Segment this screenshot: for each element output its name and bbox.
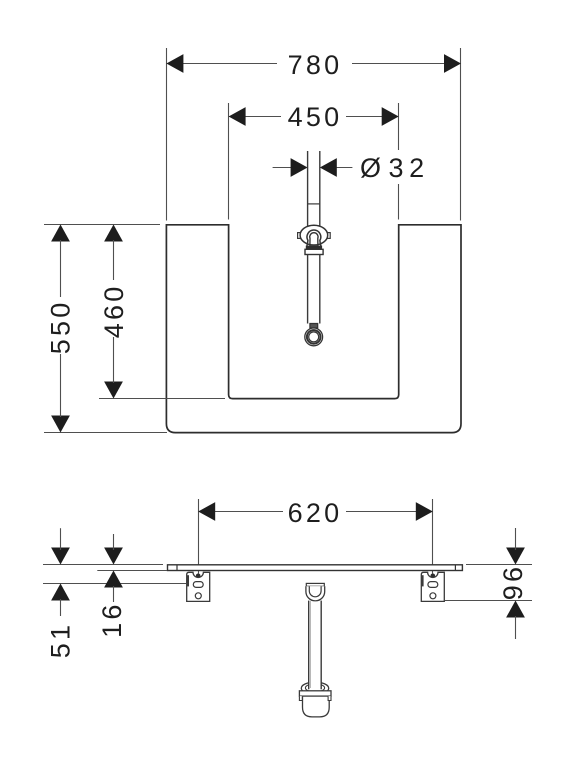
eyelet collar clip [310,324,318,329]
dim 620 extension line left [198,499,200,574]
dim 780 extension line left [166,48,168,221]
ball fitting horseshoe ring [307,230,321,246]
siphon pipe inner highlight [310,601,312,688]
cup collar nut inner ellipse [305,684,324,692]
svg-text:16: 16 [97,601,127,637]
cup band right tab [328,696,331,700]
svg-text:32: 32 [389,153,430,183]
dim 96 bottom line [445,600,532,602]
dim 620 line [198,511,283,513]
svg-text:450: 450 [288,102,343,132]
dim 450 arrow left [229,107,246,126]
dim 550/460 top extension line [44,224,160,226]
svg-text:460: 460 [99,284,129,339]
ball fitting right ear [327,233,330,239]
ball fitting left ear [298,233,301,239]
svg-text:96: 96 [498,564,528,600]
right bracket hole [430,593,436,599]
pipe joint line [308,203,320,205]
dim 450 extension line right (broken by text) [398,103,400,150]
svg-text:620: 620 [288,498,343,528]
eyelet ring middle [307,330,321,344]
svg-text:780: 780 [288,50,343,80]
dim 460 stem [113,240,115,280]
right bracket slot [428,582,438,588]
dim 16 arrow down [104,548,123,565]
dim 780 arrow right [444,54,461,73]
left bracket slot [193,582,203,588]
fitting nut [305,249,323,254]
dim 450 arrow right [382,107,399,126]
dim 620 arrow right [416,502,433,521]
dim D32 line right with arrow [334,167,352,169]
dim 450 line [229,116,281,118]
dim 96 arrow down [506,548,525,565]
basin U-shaped plate outline [166,225,461,433]
dim 780 line [166,63,277,65]
left bracket hole [195,593,201,599]
right bracket wall bar [422,575,424,586]
slab left end cap line [176,565,178,571]
slab right end cap line [454,565,456,571]
dim 460 arrow up [104,225,123,242]
siphon top cap [306,583,324,586]
drain pipe upper (top view) [307,151,309,226]
cup collar nut outer ellipse [301,682,328,694]
eyelet ring outer [305,328,323,346]
cup body [303,696,330,717]
dim 96 top line [466,564,532,566]
left bracket outline [187,572,210,601]
left bracket wall bar [187,575,189,586]
dim 450 extension line left [228,103,230,220]
siphon bowl outer [306,586,325,601]
dim 460 arrow down [104,382,123,399]
dim 460 bottom extension line [99,398,225,400]
dim 16 arrow up [104,571,123,588]
dim 620 end dot left [196,574,201,579]
dim 550 stem [60,240,62,297]
dim 96 arrow up [506,601,525,618]
siphon bowl inner [309,586,321,597]
svg-text:Ø: Ø [360,153,381,183]
siphon pipe [309,601,320,689]
dim 51 arrow down [51,548,70,565]
dim 550 arrow up [51,225,70,242]
dim 780 extension line right [460,48,462,221]
dim 620 arrow left [198,502,215,521]
cup locking band [299,691,331,696]
dim 620 extension line right [432,499,434,574]
dim 51 top line [43,564,163,566]
svg-text:51: 51 [46,622,76,658]
eyelet ring inner [309,332,319,342]
ball fitting body [300,225,328,245]
right bracket outline [421,572,444,601]
cup band left tab [299,696,302,700]
dim 51 bottom line [43,583,187,585]
dim 51 arrow up [51,584,70,601]
svg-text:550: 550 [46,300,76,355]
drain pipe lower (top view) [307,255,309,324]
dim 780 arrow left [166,54,183,73]
dim 620 end dot right [431,574,436,579]
dim 16 extension line [97,570,167,572]
dim 550 bottom extension line [44,432,167,434]
fitting dark collar band [306,246,322,250]
console slab [168,565,463,571]
dim 550 arrow down [51,416,70,433]
dim D32 line left with arrow [273,167,293,169]
